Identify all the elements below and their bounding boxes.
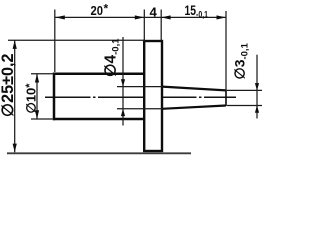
Ø4 bottom extension [117,108,162,110]
15 dim left arrow [161,15,171,19]
Ø4 top extension [117,86,162,88]
Ø10 top arrow [35,74,39,83]
Ø25 top extension [8,39,145,41]
Ø4 dimension line [122,37,124,126]
centerline (dash-dot axis) [45,96,236,98]
taper cone top edge [162,87,226,91]
Ø25 dimension line [14,40,16,152]
Ø10 bottom extension [31,118,53,120]
Ø10 top extension [31,73,53,75]
ext line left face up [54,10,56,73]
Ø3 upper outside arrow (points down) [255,83,259,90]
bottom gray scan line [7,152,191,154]
Ø3 lower outside arrow (points up) [255,106,259,113]
ext line disc left up [143,10,145,42]
Ø3 top extension [227,89,262,91]
taper cone bottom edge [162,106,226,109]
Ø25 top arrow [13,40,17,49]
svg-text:4: 4 [150,5,158,20]
Ø25 bottom arrow [13,144,17,153]
20 dim right arrow [135,15,145,19]
top dimension line 20/4/15 [55,16,226,18]
20 dim left arrow [55,15,65,19]
Ø4 upper outside arrow (points down) [121,79,125,86]
ext line end face up [225,11,227,90]
arrowheads [13,15,260,152]
taper end face [225,90,227,107]
ext line disc right up [160,10,162,42]
Ø4 lower outside arrow (points up) [121,109,125,116]
Ø3 bottom extension [227,105,262,107]
flange disc Ø25 outline [144,41,162,151]
Ø10 dimension line [36,74,38,119]
Ø10 bottom arrow [35,110,39,119]
cylinder body Ø10 outline [53,73,146,121]
Ø3 dimension line [256,55,258,119]
15 dim right arrow [217,15,227,19]
thin lines: extensions and dimension lines [8,10,262,153]
svg-text:∅25±0,2: ∅25±0,2 [0,54,17,118]
